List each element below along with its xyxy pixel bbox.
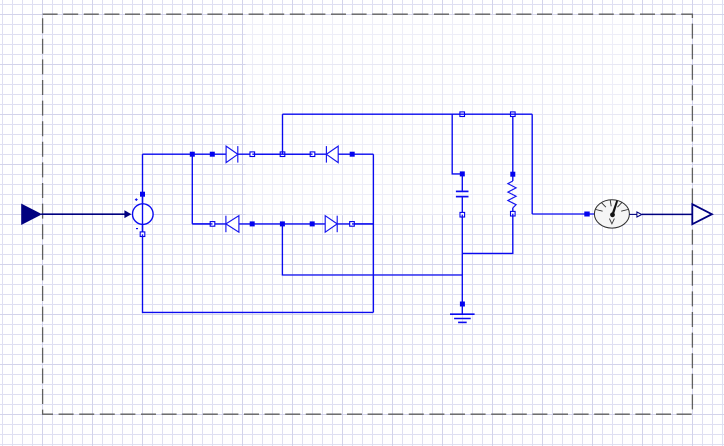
current source U1 circle <box>133 204 154 225</box>
node resistor top pin <box>510 172 515 177</box>
wire <box>532 213 594 215</box>
diode D2 <box>326 146 338 163</box>
node bottom row pin2 <box>310 221 315 226</box>
selection overlay <box>246 15 653 215</box>
wire <box>192 223 212 225</box>
wire <box>452 114 462 174</box>
wire through source <box>142 197 144 232</box>
node open pin top row <box>250 152 255 157</box>
wire <box>143 234 374 312</box>
node voltmeter pin <box>584 212 589 217</box>
input port u <box>22 204 42 224</box>
node capacitor bottom pin <box>460 212 465 217</box>
node open pin bottom row2 <box>350 222 355 227</box>
node bridge top-left <box>190 152 195 157</box>
node top line pin cap <box>460 112 465 117</box>
wire <box>512 114 514 181</box>
node capacitor top pin <box>460 171 465 176</box>
signal wire output <box>642 213 703 215</box>
wire <box>461 215 463 218</box>
wire <box>252 153 312 155</box>
node bridge bottom-center <box>280 221 285 226</box>
node source top pin <box>140 192 145 197</box>
wire <box>372 154 374 312</box>
wire <box>143 153 193 155</box>
wire <box>192 223 226 225</box>
output port y <box>692 204 712 224</box>
wire <box>462 208 513 254</box>
signal arrowhead at source <box>124 210 131 218</box>
node open pin top center <box>280 152 285 157</box>
wire <box>459 113 466 115</box>
signal output arrow small <box>637 212 642 217</box>
node source bottom pin <box>140 232 145 237</box>
wire <box>337 223 373 225</box>
node open pin top row2 <box>310 152 315 157</box>
wire <box>282 152 284 155</box>
node bottom row pin <box>250 221 255 226</box>
node open pin bottom row <box>210 222 215 227</box>
ground symbol <box>450 314 475 322</box>
node top line pin res <box>511 112 516 117</box>
current source minus sign <box>136 228 138 230</box>
signal wire input <box>41 213 129 215</box>
capacitor C1 plates <box>456 191 469 196</box>
node squares: open pins <box>140 112 515 237</box>
wire <box>282 224 462 275</box>
wire <box>461 176 463 191</box>
label V <box>609 219 614 224</box>
node top row pin <box>210 152 215 157</box>
diode D3 <box>226 216 239 233</box>
wire <box>283 113 533 115</box>
wire <box>192 153 226 155</box>
wire <box>239 223 325 225</box>
wire <box>142 234 144 237</box>
wire <box>282 114 284 154</box>
node resistor bottom pin <box>511 211 516 216</box>
node ground pin <box>460 302 465 307</box>
wire <box>512 214 514 217</box>
wire <box>510 113 517 115</box>
needle <box>611 200 618 215</box>
wire <box>461 197 463 314</box>
wire <box>338 153 373 155</box>
current source plus sign <box>135 198 138 201</box>
voltmeter V1 <box>594 200 629 228</box>
wire <box>142 154 144 232</box>
voltmeter output stub <box>629 213 637 215</box>
wire <box>531 114 533 214</box>
resistor R1 zigzag <box>508 181 516 208</box>
wire <box>191 154 193 224</box>
wire stubs over pins <box>143 114 517 237</box>
diode D1 <box>226 146 238 163</box>
diode D4 <box>325 216 337 233</box>
node D2 cathode pin <box>350 152 355 157</box>
wire <box>352 223 373 225</box>
node squares: filled connection pins <box>140 152 590 307</box>
wire <box>238 153 327 155</box>
